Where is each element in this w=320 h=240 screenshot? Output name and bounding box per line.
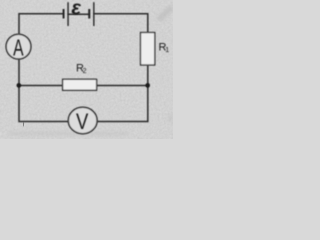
wire middle branch right (R2 to junction) [97,85,148,87]
ammeter A1 circle [6,34,31,59]
svg-text:ε: ε [71,0,81,20]
wire top-left (corner to battery) [19,14,64,34]
scan smudge right edge [168,114,173,122]
stray tick below bottom-left corner [22,122,24,126]
paper background [0,0,173,139]
label R2 [76,63,87,76]
wire ammeter to bottom-left corner [19,59,68,122]
svg-text:V: V [76,111,89,135]
battery EMF source: short plate 1 [63,9,65,19]
wire voltmeter to bottom-right corner [97,65,148,122]
battery tall plate 1 [67,2,68,26]
ammeter letter A [13,36,24,62]
svg-text:2: 2 [83,68,87,75]
wire middle branch left (junction to R2) [19,85,63,87]
junction node right [145,83,150,88]
voltmeter letter V [76,111,89,135]
wire between battery cells [68,13,89,15]
scan smudge top-right corner [156,5,174,22]
battery tall plate 2 [93,2,94,26]
scan smudge bottom edge [8,132,128,135]
svg-text:1: 1 [165,47,169,54]
svg-text:A: A [13,36,24,62]
wire battery to top-right corner [94,14,148,33]
battery short plate 2 [88,9,90,19]
EMF label epsilon [71,0,81,20]
junction node left [17,83,22,88]
label R1 [159,42,170,55]
resistor R2 box [63,79,97,90]
resistor R1 box [141,33,155,66]
voltmeter V1 circle [68,107,97,133]
